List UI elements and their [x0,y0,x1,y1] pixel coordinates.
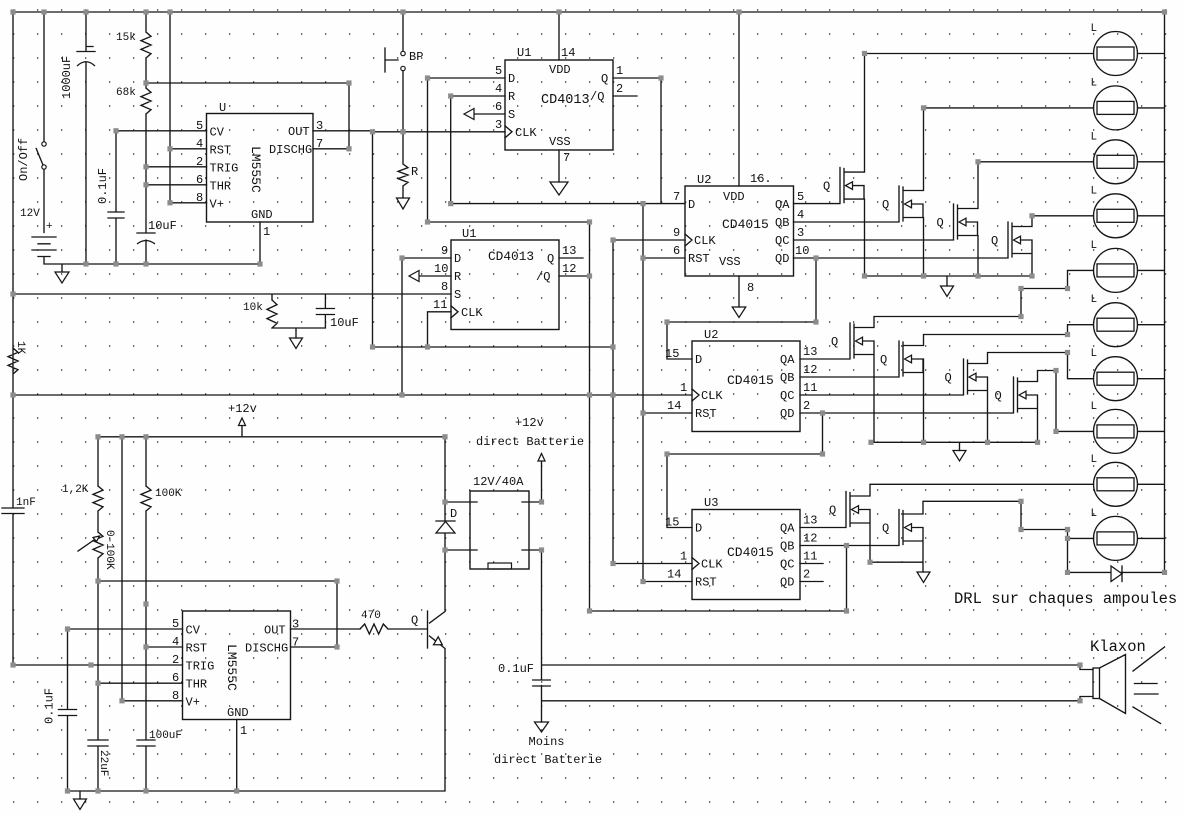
svg-text:U2: U2 [697,173,711,187]
svg-text:D: D [454,252,461,266]
svg-text:Moins: Moins [529,735,565,749]
svg-text:GND: GND [227,706,249,720]
svg-text:2: 2 [803,399,810,413]
svg-text:Q: Q [829,504,836,518]
svg-text:DISCHG: DISCHG [269,143,312,157]
svg-text:Q: Q [995,389,1002,403]
svg-text:THR: THR [186,678,208,692]
svg-text:L: L [1091,131,1098,143]
svg-text:100K: 100K [155,488,182,500]
svg-text:1nF: 1nF [16,497,36,509]
svg-text:U: U [219,101,226,115]
svg-text:0.1uF: 0.1uF [96,168,110,204]
svg-text:V+: V+ [210,197,224,211]
svg-text:D: D [688,198,695,212]
svg-text:9: 9 [441,244,448,258]
svg-text:RST: RST [695,576,717,590]
svg-text:Q: Q [937,216,944,230]
svg-text:LM555C: LM555C [248,146,263,193]
svg-text:8: 8 [747,281,754,295]
svg-text:/Q: /Q [590,90,604,104]
svg-text:RST: RST [695,407,717,421]
svg-text:Q: Q [547,252,554,266]
svg-text:CD4013: CD4013 [541,93,590,108]
svg-text:CD4013: CD4013 [488,249,534,264]
svg-text:7: 7 [673,190,680,204]
svg-text:3: 3 [495,118,502,132]
svg-text:TRIG: TRIG [210,161,239,175]
svg-text:QA: QA [780,353,795,367]
svg-text:4: 4 [797,208,804,222]
svg-text:5: 5 [172,617,179,631]
svg-text:Klaxon: Klaxon [1090,638,1146,656]
svg-text:+12v: +12v [515,416,544,430]
svg-text:5: 5 [196,119,203,133]
svg-text:BP: BP [409,50,423,64]
svg-text:0.1uF: 0.1uF [43,688,57,724]
svg-text:DISCHG: DISCHG [245,642,288,656]
svg-text:U3: U3 [704,496,718,510]
svg-text:11: 11 [803,550,817,564]
svg-text:12: 12 [803,532,817,546]
svg-text:QD: QD [780,576,794,590]
svg-text:Q: Q [882,522,889,536]
svg-text:13: 13 [803,514,817,528]
svg-text:QD: QD [775,252,789,266]
svg-text:Q: Q [823,180,830,194]
svg-text:12V: 12V [20,208,40,220]
svg-text:CLK: CLK [701,558,723,572]
svg-text:L: L [1091,401,1098,413]
svg-text:/Q: /Q [536,270,550,284]
svg-text:68k: 68k [116,87,136,99]
svg-text:S: S [508,108,515,122]
svg-text:5: 5 [495,64,502,78]
svg-text:CD4015: CD4015 [722,217,769,232]
svg-text:L: L [1091,185,1098,197]
svg-text:1K: 1K [14,341,26,355]
svg-text:5: 5 [797,190,804,204]
svg-text:11: 11 [433,298,447,312]
svg-text:+12v: +12v [228,402,257,416]
svg-text:VDD: VDD [723,190,745,204]
svg-text:15k: 15k [116,32,136,44]
svg-text:Q: Q [601,72,608,86]
svg-text:4: 4 [495,82,502,96]
svg-text:15: 15 [665,516,679,530]
svg-text:U2: U2 [704,328,718,342]
svg-text:L: L [1091,294,1098,306]
svg-text:Q: Q [882,198,889,212]
svg-text:direct Batterie: direct Batterie [476,435,584,449]
svg-text:RST: RST [210,143,232,157]
svg-text:direct Batterie: direct Batterie [494,753,602,767]
svg-text:QC: QC [780,558,794,572]
svg-text:V+: V+ [186,695,200,709]
svg-text:2: 2 [172,653,179,667]
svg-text:VDD: VDD [549,63,571,77]
svg-text:4: 4 [172,635,179,649]
svg-text:13: 13 [562,244,576,258]
svg-text:S: S [454,288,461,302]
svg-text:8: 8 [196,191,203,205]
svg-text:Q: Q [945,371,952,385]
svg-text:D: D [695,522,702,536]
svg-text:R: R [508,90,515,104]
svg-text:1,2K: 1,2K [62,484,89,496]
svg-text:12: 12 [562,262,576,276]
svg-text:QB: QB [780,371,794,385]
svg-text:THR: THR [210,179,232,193]
svg-text:QC: QC [775,234,789,248]
svg-text:D: D [695,353,702,367]
svg-text:7: 7 [292,636,299,650]
svg-text:LM555C: LM555C [224,644,239,691]
svg-text:+: + [46,221,53,233]
svg-text:16.: 16. [750,172,772,186]
svg-text:9: 9 [673,226,680,240]
svg-text:10: 10 [795,244,809,258]
svg-text:1: 1 [616,64,623,78]
svg-text:2: 2 [616,82,623,96]
svg-text:CLK: CLK [694,234,716,248]
svg-text:1: 1 [680,381,687,395]
svg-text:QB: QB [780,540,794,554]
svg-text:3: 3 [316,119,323,133]
svg-text:CD4015: CD4015 [727,545,774,560]
svg-text:L: L [1091,240,1098,252]
svg-text:3: 3 [292,618,299,632]
svg-text:1: 1 [263,225,270,239]
svg-text:CD4015: CD4015 [727,373,774,388]
svg-text:8: 8 [172,689,179,703]
svg-text:13: 13 [803,345,817,359]
svg-text:QA: QA [775,198,790,212]
svg-text:1000uF: 1000uF [60,56,74,99]
svg-text:L: L [1091,77,1098,89]
svg-text:7: 7 [316,137,323,151]
svg-text:D: D [450,507,457,521]
svg-text:10uF: 10uF [330,316,359,330]
svg-text:RST: RST [186,642,208,656]
svg-text:Q: Q [880,353,887,367]
svg-text:L: L [1091,508,1098,520]
svg-text:QC: QC [780,389,794,403]
svg-text:L: L [1091,348,1098,360]
svg-text:L: L [1091,23,1098,35]
svg-text:6: 6 [196,173,203,187]
svg-text:QA: QA [780,522,795,536]
svg-text:CV: CV [186,624,201,638]
svg-text:15: 15 [665,347,679,361]
svg-text:3: 3 [797,226,804,240]
svg-text:2: 2 [196,155,203,169]
svg-text:D: D [508,72,515,86]
svg-text:TRIG: TRIG [186,660,215,674]
svg-text:L: L [1091,454,1098,466]
svg-text:0.1uF: 0.1uF [498,662,534,676]
svg-text:VSS: VSS [549,135,571,149]
svg-text:0-100K: 0-100K [103,530,115,570]
svg-text:Q: Q [831,335,838,349]
svg-text:CV: CV [210,125,225,139]
svg-text:On/Off: On/Off [17,138,31,181]
svg-text:U1: U1 [517,46,531,60]
svg-text:QB: QB [775,216,789,230]
svg-text:470: 470 [361,610,381,622]
svg-text:CLK: CLK [515,126,537,140]
svg-text:R: R [454,270,461,284]
svg-text:6: 6 [495,100,502,114]
svg-text:10: 10 [434,262,448,276]
svg-text:OUT: OUT [288,125,310,139]
svg-text:RST: RST [688,252,710,266]
svg-text:7: 7 [563,151,570,165]
svg-text:6: 6 [172,671,179,685]
svg-text:22uF: 22uF [97,750,109,776]
svg-text:8: 8 [441,280,448,294]
svg-text:6: 6 [673,244,680,258]
svg-text:1: 1 [240,724,247,738]
svg-text:12V/40A: 12V/40A [473,475,524,489]
svg-text:VSS: VSS [719,255,741,269]
svg-text:100uF: 100uF [149,730,182,742]
svg-text:11: 11 [803,381,817,395]
svg-text:U1: U1 [462,227,476,241]
svg-text:CLK: CLK [701,389,723,403]
svg-text:14: 14 [667,568,681,582]
svg-text:1: 1 [680,550,687,564]
svg-text:12: 12 [803,363,817,377]
svg-text:14: 14 [667,399,681,413]
svg-text:QD: QD [780,407,794,421]
svg-text:2: 2 [803,568,810,582]
svg-text:Q: Q [411,614,418,628]
svg-text:14: 14 [561,46,575,60]
svg-text:10k: 10k [243,302,263,314]
svg-text:4: 4 [196,137,203,151]
svg-text:DRL sur chaques ampoules: DRL sur chaques ampoules [954,590,1177,608]
svg-text:R: R [411,165,418,179]
svg-text:Q: Q [991,234,998,248]
svg-text:GND: GND [251,208,273,222]
svg-text:10uF: 10uF [148,219,177,233]
svg-text:OUT: OUT [264,624,286,638]
svg-text:CLK: CLK [461,306,483,320]
